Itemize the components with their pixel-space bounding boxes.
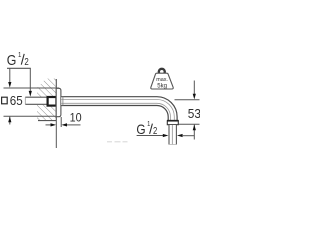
wall surface line: [55, 79, 57, 121]
svg-text:1: 1: [147, 121, 150, 128]
wall bottom edge: [38, 120, 56, 122]
svg-text:2: 2: [24, 57, 29, 68]
outlet collar nut: [167, 121, 179, 125]
svg-text:1: 1: [18, 50, 21, 59]
label G 1/2 bottom right: [136, 121, 157, 137]
dim 10 right arrow: [61, 123, 80, 126]
label square 65: [2, 93, 23, 108]
dim 65 upper arrow: [8, 68, 11, 87]
leader line under G 1/2 top left: [7, 67, 31, 69]
outlet tube with G1/2 thread: [169, 125, 176, 145]
leader arrow to inlet thread: [29, 68, 32, 96]
flange square nut: [48, 97, 57, 106]
leader arrow to outlet thread left: [163, 134, 169, 137]
shower arm tube horizontal: [61, 97, 157, 106]
dim 53 extension line bottom: [179, 123, 200, 125]
svg-text:10: 10: [70, 111, 82, 125]
dim 10 extension line left (wall face): [55, 121, 57, 148]
svg-text:max.: max.: [156, 77, 168, 83]
svg-text:G: G: [7, 53, 17, 69]
faint dashed line bottom: [107, 141, 128, 143]
dim 10 left arrow: [46, 123, 57, 126]
dim 53 lower arrow: [193, 125, 196, 140]
svg-text:5kg: 5kg: [157, 83, 167, 89]
svg-text:53: 53: [188, 106, 200, 121]
leader line under G 1/2 bottom right: [137, 135, 164, 137]
escutcheon plate (side view): [56, 88, 61, 116]
label G 1/2 top left: [7, 50, 29, 69]
max 5kg weight icon: [151, 69, 173, 90]
inlet pipe behind wall: [25, 97, 47, 104]
wall hatching: [37, 79, 56, 121]
svg-text:65: 65: [10, 93, 23, 108]
outlet thread right arrow: [177, 134, 194, 137]
dim 10 extension line right (plate face): [60, 117, 62, 127]
svg-text:G: G: [136, 121, 145, 137]
dim 53 extension line top: [175, 99, 200, 101]
dim 53 upper arrow: [193, 81, 196, 100]
dimension extension line bottom (square 65 bottom): [4, 115, 58, 117]
dimension extension line top (square 65 top): [4, 87, 60, 89]
tube bend 90 degrees: [157, 97, 177, 121]
dim 65 lower arrow: [8, 117, 11, 125]
